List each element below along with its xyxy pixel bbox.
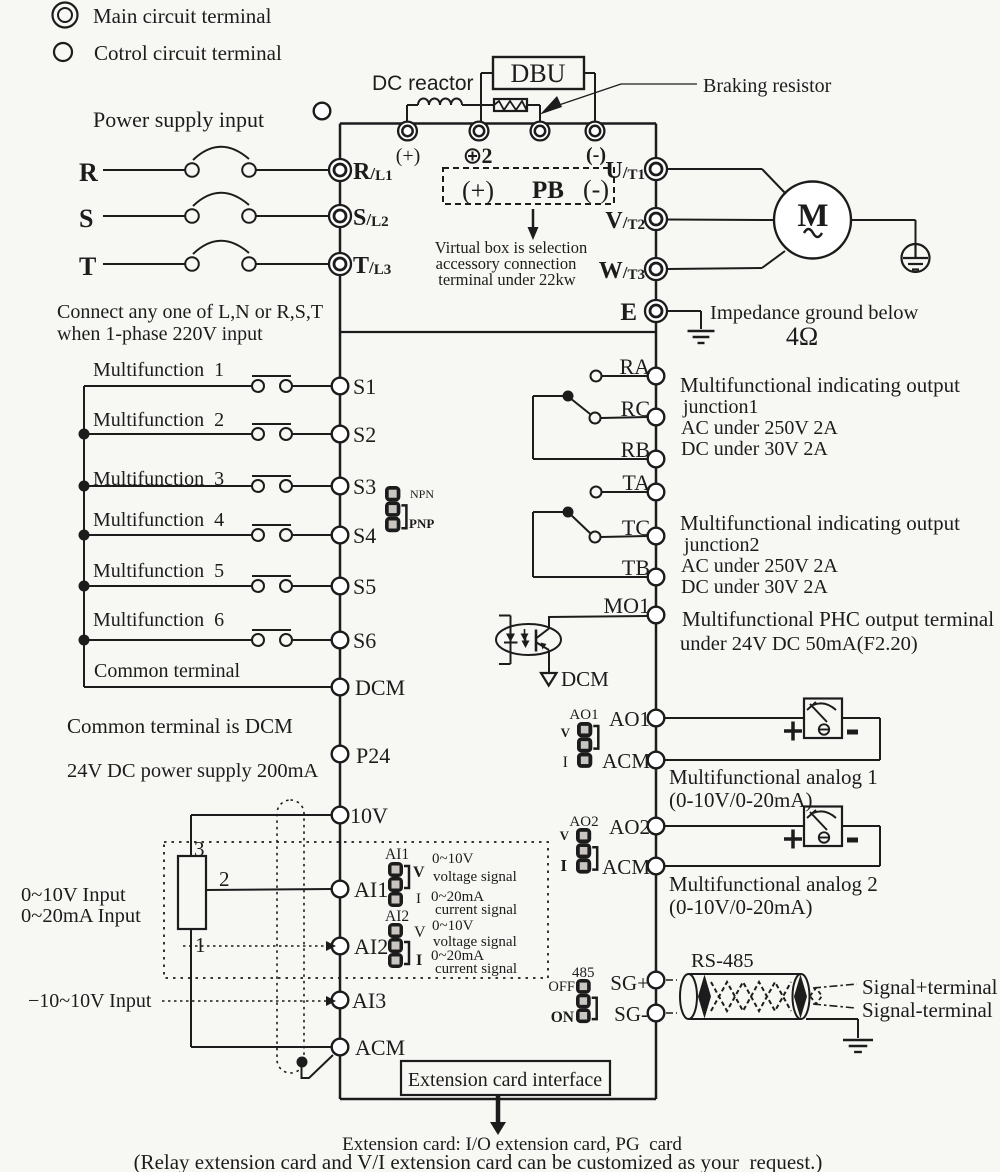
svg-text:current signal: current signal <box>435 961 517 977</box>
svg-text:Impedance ground below: Impedance ground below <box>710 302 919 324</box>
svg-text:Multifunction 1: Multifunction 1 <box>93 359 224 381</box>
svg-text:DCM: DCM <box>561 667 609 691</box>
svg-text:RS-485: RS-485 <box>691 950 754 972</box>
svg-text:V: V <box>413 864 425 881</box>
svg-text:DCM: DCM <box>355 675 405 700</box>
svg-text:PB: PB <box>532 177 564 204</box>
svg-text:I: I <box>416 891 421 907</box>
svg-text:24V DC power supply 200mA: 24V DC power supply 200mA <box>67 760 319 782</box>
svg-text:M: M <box>797 198 828 234</box>
svg-text:S4: S4 <box>353 523 376 548</box>
svg-text:AI1: AI1 <box>354 877 388 902</box>
svg-text:NPN: NPN <box>410 487 434 501</box>
svg-text:P24: P24 <box>356 743 390 768</box>
svg-text:Connect any one of L,N or R,S,: Connect any one of L,N or R,S,T <box>57 301 323 323</box>
svg-text:Braking resistor: Braking resistor <box>703 75 832 97</box>
svg-text:DBU: DBU <box>511 59 566 88</box>
svg-text:4Ω: 4Ω <box>786 322 818 351</box>
svg-text:DC under 30V 2A: DC under 30V 2A <box>681 438 828 460</box>
svg-text:Signal+terminal: Signal+terminal <box>862 975 998 999</box>
svg-text:0~10V: 0~10V <box>432 918 474 934</box>
svg-text:S3: S3 <box>353 474 376 499</box>
svg-text:PNP: PNP <box>409 516 434 531</box>
svg-text:S1: S1 <box>353 374 376 399</box>
svg-text:(+): (+) <box>396 145 421 167</box>
svg-text:AI1: AI1 <box>385 846 409 863</box>
svg-text:S2: S2 <box>353 422 376 447</box>
svg-text:Multifunction 4: Multifunction 4 <box>93 509 224 531</box>
svg-text:Multifunctional indicating out: Multifunctional indicating output <box>680 511 960 535</box>
svg-text:2: 2 <box>482 143 493 168</box>
svg-text:Multifunction 2: Multifunction 2 <box>93 409 224 431</box>
svg-text:(0-10V/0-20mA): (0-10V/0-20mA) <box>669 895 812 919</box>
svg-text:Multifunction 6: Multifunction 6 <box>93 609 224 631</box>
svg-text:(Relay extension card and V/I: (Relay extension card and V/I extension … <box>134 1150 823 1172</box>
svg-text:OFF: OFF <box>548 979 575 995</box>
svg-text:AI3: AI3 <box>352 988 386 1013</box>
svg-text:Common terminal: Common terminal <box>94 660 241 682</box>
svg-text:485: 485 <box>572 965 595 981</box>
svg-text:Multifunction 5: Multifunction 5 <box>93 560 224 582</box>
svg-text:AI2: AI2 <box>354 934 388 959</box>
svg-text:I: I <box>416 952 422 969</box>
svg-text:10V: 10V <box>350 803 388 828</box>
svg-text:AO1: AO1 <box>569 707 598 723</box>
svg-text:I: I <box>563 754 568 771</box>
svg-text:Extension card interface: Extension card interface <box>408 1069 602 1091</box>
svg-text:(-): (-) <box>586 144 606 166</box>
svg-text:AI2: AI2 <box>385 908 409 925</box>
svg-text:S: S <box>79 204 93 233</box>
svg-text:3: 3 <box>194 837 205 861</box>
svg-text:(+): (+) <box>462 176 494 205</box>
svg-text:AO2: AO2 <box>609 815 650 839</box>
svg-text:AO1: AO1 <box>609 707 650 731</box>
svg-text:V: V <box>414 924 426 941</box>
svg-text:AC under 250V 2A: AC under 250V 2A <box>681 555 838 577</box>
svg-text:AO2: AO2 <box>569 814 598 830</box>
svg-text:junction1: junction1 <box>682 396 759 418</box>
svg-text:0~10V Input: 0~10V Input <box>21 884 126 906</box>
svg-text:S6: S6 <box>353 628 376 653</box>
svg-text:Common terminal is DCM: Common terminal is DCM <box>67 714 293 738</box>
svg-text:AC under 250V 2A: AC under 250V 2A <box>681 417 838 439</box>
svg-text:current signal: current signal <box>435 902 517 918</box>
svg-text:Power supply input: Power supply input <box>93 107 264 132</box>
svg-text:DC reactor: DC reactor <box>372 72 474 95</box>
svg-text:(0-10V/0-20mA): (0-10V/0-20mA) <box>669 788 812 812</box>
svg-text:junction2: junction2 <box>683 534 760 556</box>
svg-text:voltage signal: voltage signal <box>433 869 517 885</box>
svg-text:T: T <box>79 252 96 281</box>
svg-text:under 24V DC 50mA(F2.20): under 24V DC 50mA(F2.20) <box>680 633 918 655</box>
svg-text:E: E <box>620 299 637 326</box>
svg-text:ACM: ACM <box>602 855 650 879</box>
svg-text:Signal-terminal: Signal-terminal <box>862 998 993 1022</box>
svg-text:ACM: ACM <box>602 749 650 773</box>
svg-text:SG+: SG+ <box>610 971 649 995</box>
svg-text:−10~10V Input: −10~10V Input <box>28 990 152 1012</box>
svg-text:Main circuit terminal: Main circuit terminal <box>93 4 272 28</box>
svg-text:2: 2 <box>219 867 230 891</box>
svg-text:when 1-phase 220V input: when 1-phase 220V input <box>57 323 263 345</box>
svg-text:V: V <box>561 725 571 740</box>
svg-text:Multifunctional PHC output ter: Multifunctional PHC output terminal <box>682 607 994 631</box>
svg-text:MO1: MO1 <box>604 593 650 618</box>
svg-text:ON: ON <box>551 1009 574 1026</box>
svg-text:V: V <box>560 828 570 843</box>
svg-text:terminal under 22kw: terminal under 22kw <box>438 270 576 289</box>
svg-text:0~20mA Input: 0~20mA Input <box>21 905 141 927</box>
svg-text:0~10V: 0~10V <box>432 851 474 867</box>
svg-text:Cotrol circuit terminal: Cotrol circuit terminal <box>94 41 282 65</box>
svg-text:DC under 30V 2A: DC under 30V 2A <box>681 576 828 598</box>
svg-text:I: I <box>560 856 567 875</box>
svg-text:R: R <box>79 158 98 187</box>
svg-text:Multifunctional indicating out: Multifunctional indicating output <box>680 373 960 397</box>
svg-text:Multifunctional analog 2: Multifunctional analog 2 <box>669 872 878 896</box>
svg-text:ACM: ACM <box>355 1035 405 1060</box>
svg-text:Multifunctional analog 1: Multifunctional analog 1 <box>669 765 878 789</box>
svg-text:S5: S5 <box>353 574 376 599</box>
svg-text:SG-: SG- <box>614 1002 648 1026</box>
svg-text:1: 1 <box>195 933 206 957</box>
